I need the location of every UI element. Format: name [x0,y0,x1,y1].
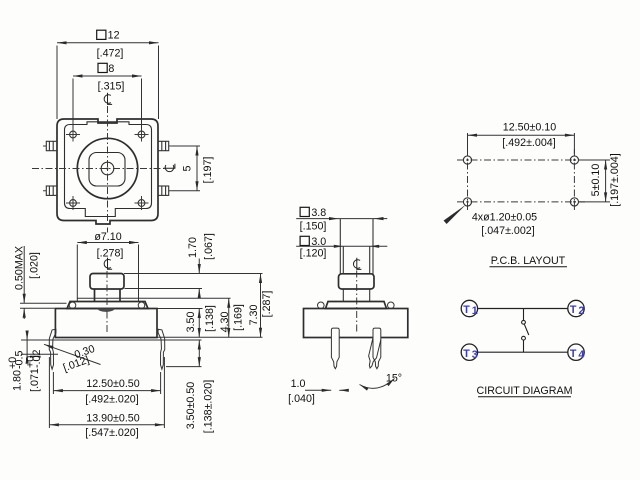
wire T1-T2 [478,308,568,310]
front view cap [90,274,124,290]
top view inner cover square [65,122,152,217]
stem base reference line [77,297,230,299]
terminal T4 [568,344,585,361]
svg-text:[.047±.002]: [.047±.002] [481,225,534,237]
svg-text:4: 4 [578,349,584,361]
svg-text:12: 12 [108,30,120,42]
terminal T2 [568,300,585,317]
svg-text:13.90±0.50: 13.90±0.50 [86,413,139,425]
side view centerline [356,271,358,335]
svg-text:[.138±.020]: [.138±.020] [203,380,215,433]
top view side pins [46,141,168,195]
svg-text:3.50: 3.50 [185,312,197,333]
svg-text:1.0: 1.0 [291,378,306,390]
svg-text:[.071: [.071 [29,368,41,392]
centerline symbol front [104,258,112,270]
svg-text:5±0.10: 5±0.10 [590,164,602,197]
dimension 0.30 leader [44,344,101,364]
svg-text:CIRCUIT DIAGRAM: CIRCUIT DIAGRAM [477,385,573,397]
dimension 3.50±0.50 leg length [166,340,202,367]
dimension 4.30 [228,298,230,337]
svg-text:1.80: 1.80 [12,370,24,391]
side view body [304,309,408,338]
wire T3-T4 [478,351,568,353]
svg-text:[.067]: [.067] [203,233,215,260]
dimension square8 [73,76,142,128]
svg-text:4xø1.20±0.05: 4xø1.20±0.05 [472,211,537,223]
svg-text:[.120]: [.120] [300,247,327,259]
svg-text:[.138]: [.138] [204,305,216,332]
svg-text:3.50±0.50: 3.50±0.50 [185,382,197,430]
dimension square3.8 [296,218,387,220]
svg-text:3.0: 3.0 [311,236,326,248]
front view stem [95,289,121,302]
svg-text:8: 8 [108,63,114,75]
svg-text:[.040]: [.040] [288,393,315,405]
front view legs [49,329,165,369]
dimension 12.50±0.10 [468,133,575,154]
top view center circle [101,162,114,175]
terminal T3 [461,344,478,361]
svg-text:[.020]: [.020] [29,252,41,279]
front view contact dome [98,309,115,312]
top view outer body square [57,119,158,224]
svg-text:12.50±0.10: 12.50±0.10 [503,121,556,133]
svg-text:[.197±.004]: [.197±.004] [609,153,621,206]
centerline symbol top [104,93,112,105]
dimension 5 right of top view [172,146,200,191]
dimension 3.50 body height [157,309,203,338]
front view body [55,274,157,338]
svg-text:[.547±.020]: [.547±.020] [85,427,138,439]
switch contacts [522,309,529,353]
pcb holes [463,156,578,206]
seating reference lines [21,340,202,354]
side view stem lines [340,219,373,302]
svg-text:T: T [570,348,577,360]
dimension 12.50 pin span [53,372,160,394]
svg-text:15°: 15° [386,373,402,385]
svg-text:2: 2 [578,305,584,317]
front view cover plate [67,302,148,309]
dimension 0.50MAX [20,246,67,319]
svg-text:0.50MAX: 0.50MAX [14,246,26,290]
side view cover plate [326,302,387,309]
side view pins [331,328,380,369]
top view center dot [106,167,108,169]
centerline symbol right [163,164,175,172]
svg-text:3.8: 3.8 [311,207,326,219]
top view corner stakes [70,131,145,206]
top view centerlines [32,106,166,233]
svg-text:]: ] [29,355,41,358]
svg-text:[.492±.004]: [.492±.004] [502,137,555,149]
svg-text:[.150]: [.150] [300,221,327,233]
side view collar [339,274,375,289]
svg-text:T: T [570,304,577,316]
svg-text:5: 5 [182,165,194,171]
terminal T1 [461,300,478,317]
dimension square12 [57,43,159,119]
svg-text:[.169]: [.169] [233,304,245,331]
top view button circle [77,138,137,198]
svg-text:[.197]: [.197] [202,157,214,184]
svg-text:12.50±0.50: 12.50±0.50 [86,378,139,390]
dimension 1.70 cap height [124,259,263,297]
svg-text:7.30: 7.30 [248,305,260,326]
svg-text:3: 3 [472,349,478,361]
centerline symbol side [353,258,361,270]
dimension square3.0 [296,245,387,247]
dimension 5±0.10 [579,160,610,202]
hole size leader [444,206,465,224]
side view rivets [318,302,395,309]
svg-text:T: T [463,304,470,316]
svg-text:T: T [463,348,470,360]
top view inner rounded square [89,153,125,187]
front view centerline [106,271,108,333]
svg-text:[.315]: [.315] [98,81,125,93]
svg-text:[.492±.020]: [.492±.020] [85,393,138,405]
svg-text:[.278]: [.278] [97,247,124,259]
svg-text:P.C.B. LAYOUT: P.C.B. LAYOUT [491,255,566,267]
dimension 1.80 [26,332,28,362]
front view rivets [69,302,145,309]
dimension 7.30 total height [157,274,263,338]
dimension 13.90 body span [49,357,164,428]
svg-text:[.472]: [.472] [97,48,124,60]
dimension 1.0 pin width [305,389,348,391]
svg-text:[.287]: [.287] [261,291,273,318]
dimension dia 7.10 [77,243,138,302]
svg-text:1.70: 1.70 [187,237,199,258]
svg-text:4.30: 4.30 [219,312,231,333]
svg-text:ø7.10: ø7.10 [94,231,121,243]
side view swing arc [360,379,395,389]
pcb hole centerlines [457,149,585,213]
side view tilted pin [366,335,382,369]
svg-text:1: 1 [472,305,478,317]
